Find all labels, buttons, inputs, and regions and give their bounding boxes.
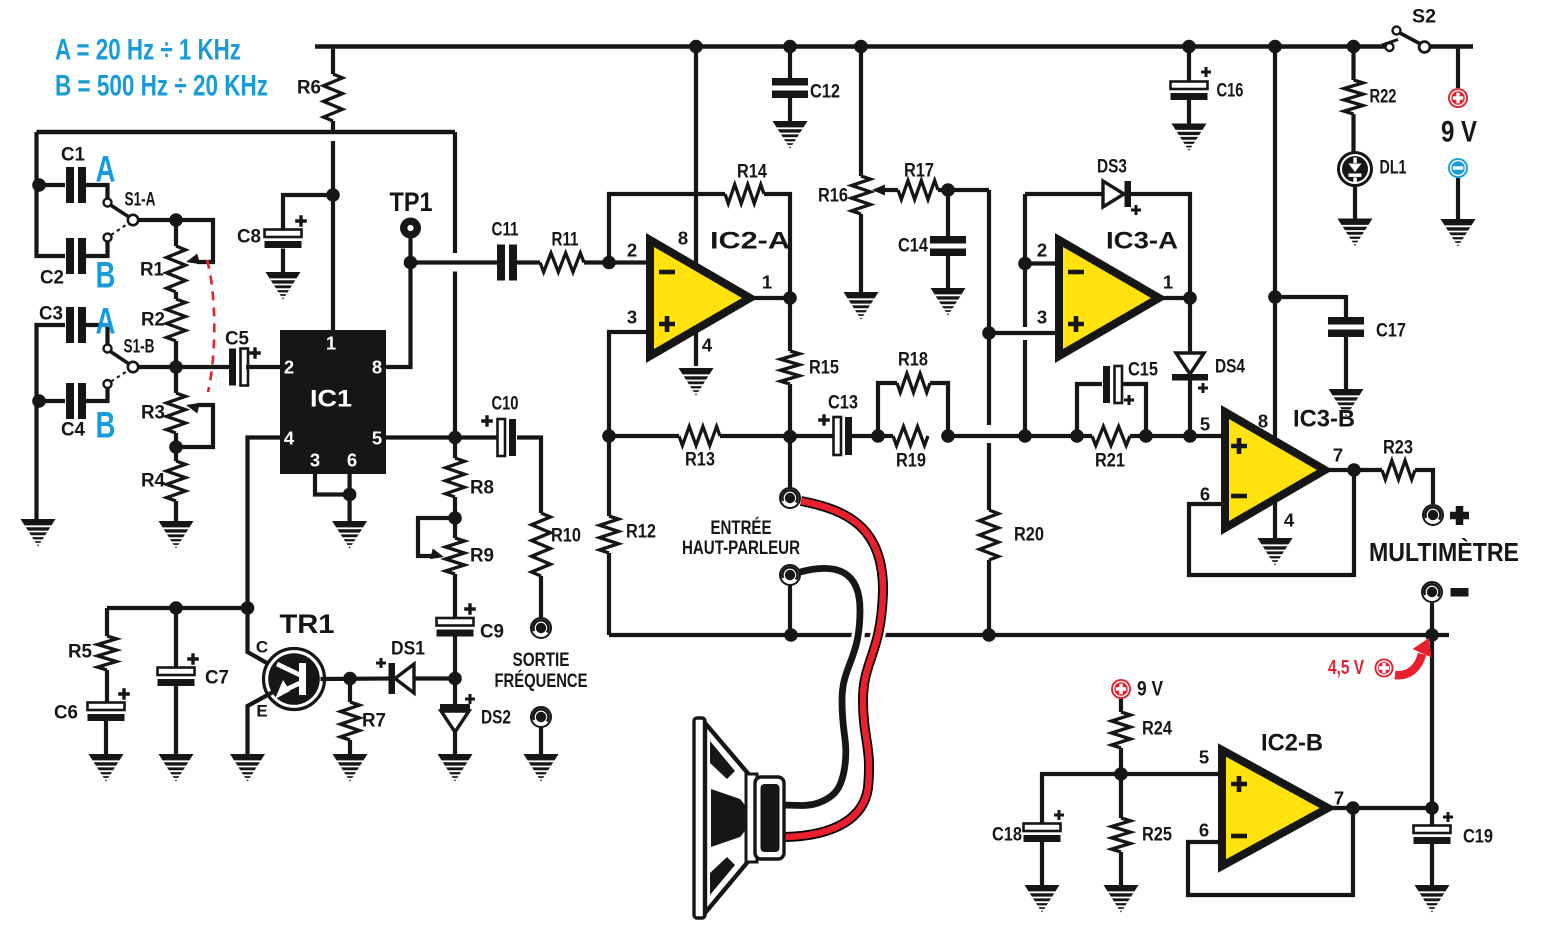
label IC2-A pin1 (762, 272, 772, 293)
svg-text:R9: R9 (470, 546, 494, 567)
diode DS3 (1097, 157, 1141, 216)
wire C18 branch (1042, 774, 1121, 823)
switch S1-B (104, 337, 155, 389)
wire C1 to S1-A contact A (86, 185, 108, 198)
ground IC3-B pin4 (1258, 538, 1293, 566)
ground IC1 (332, 521, 367, 549)
node IC3-A pin1 junction (1183, 291, 1197, 305)
node C15/R21 left junction (1070, 429, 1084, 443)
wire IC1 pin4 to TR1 collector (248, 438, 281, 667)
wire IC1 pin5 to node A (386, 435, 497, 439)
node R18/R19 right junction (941, 429, 955, 443)
svg-text:R17: R17 (904, 161, 934, 182)
label 4.5V marker (1328, 638, 1432, 679)
resistor R9 (pot) (446, 518, 495, 617)
resistor R15 (781, 298, 840, 437)
svg-text:6: 6 (347, 450, 357, 471)
svg-text:C10: C10 (492, 394, 519, 415)
wire R10 to output jack (539, 576, 543, 618)
node C16 rail junction (1182, 40, 1196, 54)
node IC2-A pin2 junction (602, 256, 616, 270)
svg-text:C19: C19 (1463, 827, 1493, 848)
resistor R18 loop (878, 350, 948, 437)
diode DS2 (440, 679, 511, 756)
svg-text:R3: R3 (141, 403, 165, 424)
wire rail drop to node A (with hop) (453, 132, 457, 438)
transistor TR1 (256, 609, 335, 721)
svg-text:S1-B: S1-B (124, 337, 155, 358)
svg-text:3: 3 (1037, 307, 1047, 328)
resistor R11 (540, 230, 584, 273)
svg-text:8: 8 (678, 228, 688, 249)
svg-text:9 V: 9 V (1441, 116, 1477, 149)
ground R16 (844, 292, 879, 320)
label B blue (S1-A) (96, 255, 116, 296)
svg-text:C18: C18 (992, 825, 1022, 846)
svg-text:S2: S2 (1412, 7, 1436, 28)
node DS1/C9/DS2 junction (448, 672, 462, 686)
svg-text:DS2: DS2 (481, 708, 511, 729)
op-amp IC3-B (1225, 406, 1355, 529)
svg-text:B: B (96, 405, 116, 446)
wire IC2-A feedback riser (609, 194, 725, 263)
capacitor C9 (437, 603, 505, 642)
wire DS3 loop top (1025, 192, 1103, 196)
label IC3-B pin7 (1333, 445, 1343, 466)
svg-text:ENTRÉE: ENTRÉE (711, 516, 772, 539)
wire IC3-A pin1 to DS4 (1159, 296, 1190, 300)
wire C8 branch (283, 195, 333, 229)
node IC2-A pin1 junction (783, 291, 797, 305)
svg-text:S1-A: S1-A (125, 190, 156, 211)
svg-text:C9: C9 (480, 622, 504, 643)
node C4 left junction (32, 394, 46, 408)
wire C6 to ground (104, 721, 108, 755)
wire C1 left stub (37, 183, 66, 187)
diode DS4 (1172, 298, 1245, 436)
resistor R2 (141, 292, 186, 367)
switch S1-A (104, 190, 156, 242)
svg-text:R6: R6 (297, 78, 321, 99)
wire C16 to ground (1187, 100, 1191, 124)
wire node line to IC3-B pin5 (948, 434, 1225, 438)
svg-text:C1: C1 (61, 145, 85, 166)
wire 9V battery drop (1456, 47, 1460, 89)
wire speaker cable black (783, 568, 860, 805)
node C1 left junction (32, 178, 46, 192)
ground DS2 (438, 754, 473, 782)
ground R7 (333, 754, 368, 782)
ground TR1 emitter (230, 754, 265, 782)
jack ENTREE haut-parleur 2 (780, 565, 800, 635)
svg-text:A: A (96, 301, 116, 342)
resistor R12 (600, 436, 657, 635)
wire IC3-A pin3 (989, 331, 1059, 335)
label ENTREE HAUT-PARLEUR (682, 516, 800, 559)
resistor R1 (pot) (140, 220, 186, 292)
svg-text:IC3-B: IC3-B (1293, 406, 1355, 433)
node R13 left junction (602, 429, 616, 443)
node R3/R4 junction (169, 440, 183, 454)
svg-text:DL1: DL1 (1380, 158, 1407, 179)
resistor R20 (980, 510, 1045, 635)
ground output jack (524, 754, 559, 782)
node 4.5V junction (1425, 628, 1439, 642)
node TR1 collector junction (241, 601, 255, 615)
svg-text:3: 3 (627, 307, 637, 328)
node R8/R9 junction (448, 511, 462, 525)
label IC3-B pin6 (1200, 484, 1210, 505)
node IC3-A pin2 junction (1018, 257, 1032, 271)
node R24/R25 junction (1114, 767, 1128, 781)
resistor R14 (725, 162, 767, 204)
label multimeter plus sign (1450, 506, 1469, 525)
node C17 junction (1268, 290, 1282, 304)
resistor R21 (1092, 427, 1130, 472)
wire R17 to node (938, 188, 989, 192)
node A junction (448, 431, 462, 445)
wire R17 node to IC3-A pin3 (with hop) (987, 190, 991, 510)
resistor R24 (1112, 699, 1173, 774)
svg-text:6: 6 (1199, 820, 1209, 841)
wire C3 to S1-B contact A (86, 325, 108, 344)
svg-text:1: 1 (1163, 272, 1173, 293)
wire IC3-B pin6 feedback (1189, 470, 1354, 575)
label B blue (S1-B) (96, 405, 116, 446)
svg-text:DS3: DS3 (1097, 157, 1127, 178)
LED DL1 (1339, 153, 1407, 186)
wire IC1 pins 3/6 to ground (315, 474, 350, 522)
wire IC2-B pin5 (1121, 772, 1222, 776)
svg-text:R10: R10 (551, 526, 581, 547)
capacitor C19 (1414, 812, 1494, 848)
svg-text:7: 7 (1334, 788, 1344, 809)
node R15/C13 junction (783, 430, 797, 444)
wire C11 to R11 (517, 260, 540, 264)
capacitor C11 (492, 220, 519, 281)
svg-text:C8: C8 (237, 227, 261, 248)
ground IC2-A pin4 (679, 368, 714, 396)
svg-text:E: E (256, 702, 267, 721)
label IC3-A pin2 (1037, 240, 1047, 261)
label IC2-B pin7 (1334, 788, 1344, 809)
ground C17 (1329, 389, 1364, 417)
svg-text:R23: R23 (1383, 438, 1413, 459)
battery plus 9V IC2-B (1111, 678, 1163, 701)
svg-text:7: 7 (1333, 445, 1343, 466)
wire IC2-B pin6 feedback (1188, 808, 1353, 895)
wire C19 to ground (1430, 843, 1434, 886)
wire C9 to DS1 node (453, 636, 457, 679)
wire IC1 pin1 riser (331, 141, 335, 331)
wire S1-A pole to R1 (138, 218, 176, 222)
node C19 junction (1425, 801, 1439, 815)
red gang dashed line R1-R3 (207, 260, 214, 392)
ground DL1 (1338, 219, 1373, 247)
resistor R6 (297, 47, 343, 134)
svg-text:IC3-A: IC3-A (1106, 228, 1178, 255)
svg-text:4,5 V: 4,5 V (1328, 657, 1365, 679)
label IC2-A pin2 (627, 240, 637, 261)
node speaker jack2 junction (784, 628, 798, 642)
svg-text:2: 2 (284, 357, 294, 378)
resistor R7 (341, 679, 387, 756)
ground C14 (931, 288, 966, 316)
op-amp IC2-B (1222, 730, 1328, 867)
capacitor C7 (158, 608, 230, 689)
node R17/C14 junction (941, 183, 955, 197)
svg-text:C11: C11 (492, 220, 519, 241)
capacitor C6 (54, 688, 130, 723)
jack ENTREE haut-parleur 1 (780, 488, 800, 508)
wire IC3-B pin7 out (1325, 468, 1382, 472)
resistor R23 (1382, 438, 1415, 480)
resistor R25 (1112, 774, 1173, 886)
resistor R16 (pot) (818, 47, 871, 294)
wire R3 wiper loop (176, 403, 213, 447)
svg-text:DS4: DS4 (1215, 357, 1245, 378)
svg-text:R13: R13 (685, 450, 715, 471)
capacitor C2 (40, 238, 86, 289)
wire R5/C7 top rail (107, 606, 248, 610)
resistor R17 (898, 161, 938, 200)
wire C4 to S1-B contact B (86, 388, 108, 401)
svg-text:1: 1 (326, 333, 336, 354)
jack SORTIE FREQUENCE signal (531, 618, 551, 638)
capacitor C8 (237, 215, 307, 248)
label IC3-A pin1 (1163, 272, 1173, 293)
svg-text:4: 4 (702, 335, 713, 356)
wire battery minus to ground (1456, 178, 1460, 220)
jack multimeter minus (1422, 582, 1442, 602)
wire C18 to ground (1040, 841, 1044, 886)
node TR1 base junction (343, 672, 357, 686)
wire IC2-A pin3 (609, 332, 650, 436)
capacitor C4 (61, 383, 86, 441)
label IC3-A pin3 (1037, 307, 1047, 328)
svg-text:IC2-B: IC2-B (1261, 730, 1323, 757)
wire IC3-B pin4 (1275, 499, 1295, 539)
svg-text:C3: C3 (39, 304, 63, 325)
capacitor C10 (481, 394, 518, 457)
node IC3-A pin2 node junction (1018, 429, 1032, 443)
wire speaker cable red (784, 501, 883, 837)
capacitor C16 (1171, 47, 1244, 102)
wire IC2-A pin4 (696, 330, 713, 366)
capacitor C12 (772, 47, 840, 123)
svg-text:8: 8 (372, 357, 382, 378)
capacitor C3 (39, 304, 86, 344)
node R1 top junction (169, 213, 183, 227)
ground R25 (1104, 885, 1139, 913)
wire R9 wiper loop (418, 518, 455, 559)
label A blue (S1-B) (96, 301, 116, 342)
svg-text:IC2-A: IC2-A (710, 228, 790, 255)
label IC2-B pin5 (1199, 747, 1209, 768)
label MULTIMETRE (1369, 537, 1519, 567)
resistor R4 (141, 447, 186, 521)
svg-text:B: B (96, 255, 116, 296)
resistor R5 (68, 608, 117, 703)
ground C3/C4 (21, 519, 56, 547)
svg-text:C5: C5 (225, 329, 249, 350)
node IC1 pin3/6 junction (343, 488, 357, 502)
wire C8 to ground (281, 249, 285, 274)
svg-text:4: 4 (1284, 510, 1295, 531)
svg-text:5: 5 (372, 428, 382, 449)
wire TR1 emitter (248, 692, 274, 755)
svg-text:R7: R7 (362, 711, 386, 732)
ground C6 (89, 754, 124, 782)
ground C18 (1025, 885, 1060, 913)
jack multimeter plus (1423, 505, 1443, 525)
svg-text:DS1: DS1 (391, 639, 425, 660)
svg-text:IC1: IC1 (310, 386, 352, 413)
svg-text:SORTIE: SORTIE (513, 649, 570, 671)
wire C4 left stub (37, 399, 66, 403)
wire IC2-A pin8 supply (694, 47, 698, 268)
wire C13 to R19 (851, 434, 894, 438)
wire R13 node line (609, 434, 679, 438)
svg-text:2: 2 (1037, 240, 1047, 261)
svg-text:R18: R18 (898, 350, 928, 371)
wire IC3-B pin8 supply (1273, 47, 1277, 442)
label 9V battery (1441, 116, 1477, 149)
svg-text:R1: R1 (140, 260, 164, 281)
ground C7 (159, 754, 194, 782)
wire S1-B pole to C5 (138, 365, 229, 369)
node IC3-B pin8 rail junction (1268, 40, 1282, 54)
svg-text:C2: C2 (40, 268, 64, 289)
svg-text:6: 6 (1200, 484, 1210, 505)
wire node to speaker jack1 (788, 437, 792, 488)
ground C19 (1415, 885, 1450, 913)
node TP1 junction (404, 256, 418, 270)
capacitor C18 (992, 810, 1064, 846)
svg-text:C15: C15 (1128, 360, 1158, 381)
svg-text:5: 5 (1199, 747, 1209, 768)
label IC2-B pin6 (1199, 820, 1209, 841)
node IC2-B pin7 junction (1346, 801, 1360, 815)
wire IC1 pin8 to TP1 node (386, 263, 411, 368)
label IC3-B pin5 (1200, 414, 1210, 435)
node DS4/pin5 junction (1183, 429, 1197, 443)
svg-text:R12: R12 (626, 522, 656, 543)
svg-text:R25: R25 (1142, 825, 1172, 846)
svg-text:9 V: 9 V (1137, 678, 1163, 701)
capacitor C13 (818, 393, 858, 456)
svg-text:C12: C12 (810, 82, 840, 103)
IC IC1 (280, 330, 386, 474)
svg-text:2: 2 (627, 240, 637, 261)
svg-text:C7: C7 (205, 668, 229, 689)
blue frequency legend text (55, 34, 268, 103)
battery minus 9V (1448, 158, 1468, 178)
svg-text:8: 8 (1258, 411, 1268, 432)
capacitor C5 (225, 329, 261, 386)
wire TR1 base (321, 676, 391, 681)
wire IC2-B pin7 out (1328, 806, 1432, 810)
wire IC3-A pin2 riser (with hop) (1023, 194, 1027, 436)
wire DS1 to C9 node (414, 676, 455, 680)
node R2/R3 junction (169, 360, 183, 374)
wire IC3-A pin2 (1025, 261, 1059, 265)
speaker (694, 718, 784, 918)
svg-text:3: 3 (310, 450, 320, 471)
node IC2-A pin8 rail junction (689, 40, 703, 54)
resistor R22 (1344, 47, 1397, 154)
node R18/R19 left junction (871, 429, 885, 443)
wire C5 to IC1 pin2 (246, 365, 280, 369)
capacitor C15 loop (1077, 360, 1158, 437)
svg-text:TP1: TP1 (390, 187, 433, 217)
svg-text:R19: R19 (896, 451, 926, 472)
svg-text:A: A (96, 149, 116, 190)
wire bottom rail (609, 633, 1449, 637)
test point TP1 (390, 187, 433, 263)
svg-text:R22: R22 (1370, 87, 1397, 108)
label multimeter minus sign (1451, 588, 1469, 597)
resistor R8 (446, 438, 495, 519)
op-amp IC2-A (650, 228, 790, 357)
svg-text:1: 1 (762, 272, 772, 293)
ground C8 (266, 272, 301, 300)
svg-text:R5: R5 (68, 642, 92, 663)
node C15/R21 right junction (1139, 429, 1153, 443)
wire C2 to S1-A contact B (86, 242, 108, 256)
svg-text:FRÉQUENCE: FRÉQUENCE (495, 669, 588, 692)
svg-text:C: C (256, 638, 268, 657)
node C12 rail junction (783, 40, 797, 54)
node IC3-B pin7 junction (1347, 463, 1361, 477)
svg-text:R24: R24 (1142, 719, 1172, 740)
svg-text:HAUT-PARLEUR: HAUT-PARLEUR (682, 537, 800, 559)
wire C10 to R10 (517, 438, 541, 514)
op-amp IC3-A (1059, 228, 1178, 357)
capacitor C17 (1275, 297, 1406, 390)
label IC2-A pin3 (627, 307, 637, 328)
svg-text:R4: R4 (141, 471, 165, 492)
wire R14 to pin1 (764, 194, 790, 298)
ground C12 (773, 121, 808, 149)
wire secondary rail (37, 130, 456, 135)
svg-text:R20: R20 (1014, 525, 1044, 546)
svg-text:R16: R16 (818, 186, 848, 207)
svg-text:4: 4 (284, 428, 295, 449)
wire R11 to IC2-A pin2 (584, 260, 650, 264)
label IC3-B pin8 (1258, 411, 1268, 432)
svg-text:C4: C4 (61, 420, 85, 441)
svg-text:R21: R21 (1095, 451, 1125, 472)
wire DL1 to ground (1353, 185, 1357, 219)
svg-text:C14: C14 (898, 236, 928, 257)
svg-text:R14: R14 (737, 162, 767, 183)
ground C16 (1172, 124, 1207, 152)
svg-text:TR1: TR1 (280, 609, 335, 639)
resistor R10 (532, 513, 582, 576)
label SORTIE FREQUENCE (495, 649, 588, 692)
node C8 junction (326, 188, 340, 202)
svg-text:R11: R11 (552, 230, 579, 251)
node R16 rail junction (854, 40, 868, 54)
svg-text:B = 500 Hz ÷ 20 KHz: B = 500 Hz ÷ 20 KHz (55, 70, 268, 103)
wire top supply rail (315, 44, 1473, 49)
wire multimeter minus to bottom rail (1430, 603, 1434, 826)
wire C7 to ground (174, 686, 178, 755)
label IC2-A pin8 (678, 228, 688, 249)
wire DS3 to pin1 (1131, 194, 1190, 298)
capacitor C1 (61, 145, 86, 204)
